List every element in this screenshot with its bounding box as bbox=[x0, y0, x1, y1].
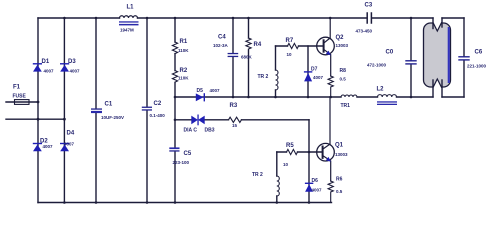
diode D6 bbox=[305, 183, 313, 184]
svg-text:0.1-400: 0.1-400 bbox=[150, 113, 166, 118]
lamp pin top left bbox=[432, 18, 434, 29]
svg-text:TR 2: TR 2 bbox=[258, 74, 269, 80]
wire Q1 base line y=152 bbox=[277, 151, 322, 153]
capacitor C3 bbox=[367, 13, 371, 23]
svg-text:DB3: DB3 bbox=[205, 128, 215, 134]
svg-text:R3: R3 bbox=[230, 103, 238, 109]
capacitor C6 bbox=[458, 56, 469, 57]
lamp pin bottom left bbox=[432, 80, 434, 97]
svg-text:472-1000: 472-1000 bbox=[367, 63, 387, 68]
svg-text:C1: C1 bbox=[105, 102, 113, 108]
svg-text:C3: C3 bbox=[365, 3, 373, 9]
wire AC line 1 with fuse bbox=[6, 101, 38, 103]
svg-text:L2: L2 bbox=[377, 87, 385, 93]
wire C4 column bbox=[232, 18, 234, 97]
svg-text:4007: 4007 bbox=[312, 188, 323, 193]
junction dots output node bbox=[232, 96, 235, 99]
wire TR2 bottom winding column bbox=[276, 152, 278, 203]
svg-text:D5: D5 bbox=[197, 88, 204, 94]
wire C0 column bbox=[410, 18, 412, 97]
svg-text:DIA C: DIA C bbox=[184, 128, 198, 134]
svg-text:D7: D7 bbox=[311, 67, 318, 73]
wire TR2 top winding column bbox=[275, 46, 277, 97]
svg-text:10: 10 bbox=[283, 162, 289, 167]
svg-text:R2: R2 bbox=[180, 68, 188, 74]
diode D5 bbox=[204, 93, 205, 101]
diode D1 bbox=[33, 63, 42, 64]
svg-text:473-450: 473-450 bbox=[356, 29, 373, 34]
wire AC line 2 bbox=[6, 118, 64, 120]
diode D7 bbox=[304, 71, 312, 72]
svg-text:223-100: 223-100 bbox=[173, 160, 190, 165]
svg-text:13003: 13003 bbox=[336, 43, 349, 48]
svg-text:Q2: Q2 bbox=[336, 35, 345, 41]
transformer TR2 top winding bbox=[276, 70, 279, 90]
svg-text:110K: 110K bbox=[178, 76, 189, 81]
transistor Q1 bbox=[317, 143, 335, 161]
emitter arrow Q2 bbox=[326, 51, 331, 56]
svg-text:4007: 4007 bbox=[44, 69, 55, 74]
svg-text:TR 2: TR 2 bbox=[252, 172, 263, 178]
wire top lamp-to-C6 segment bbox=[442, 17, 464, 19]
svg-text:15: 15 bbox=[232, 123, 238, 128]
svg-text:R7: R7 bbox=[286, 38, 294, 44]
resistor R5 bbox=[287, 149, 298, 154]
svg-text:4007: 4007 bbox=[70, 69, 81, 74]
svg-text:FUSE: FUSE bbox=[13, 94, 27, 100]
svg-text:D6: D6 bbox=[312, 178, 319, 184]
wire C1 column bbox=[95, 18, 97, 203]
wire top bus right segment bbox=[372, 17, 433, 19]
wire Q2 base line y=46 bbox=[276, 45, 323, 47]
resistor R8 bbox=[328, 76, 333, 97]
lamp tube bbox=[424, 23, 451, 87]
svg-text:221-1000: 221-1000 bbox=[467, 64, 487, 69]
wire R1 R2 C5 column bbox=[174, 18, 176, 203]
svg-text:C4: C4 bbox=[218, 35, 226, 41]
wire diac line y=119.8 bbox=[175, 119, 309, 121]
capacitor C1 bbox=[91, 108, 102, 109]
svg-text:R1: R1 bbox=[180, 39, 188, 45]
svg-text:C5: C5 bbox=[184, 151, 192, 157]
svg-text:10: 10 bbox=[287, 52, 293, 57]
svg-text:R5: R5 bbox=[286, 143, 294, 149]
svg-text:C6: C6 bbox=[475, 50, 483, 56]
svg-text:C2: C2 bbox=[154, 101, 162, 107]
resistor R3 bbox=[229, 117, 242, 122]
capacitor C0 bbox=[405, 60, 416, 61]
wire D6 R3-corner column bbox=[308, 120, 310, 203]
svg-text:102-3A: 102-3A bbox=[213, 43, 229, 48]
svg-text:L1: L1 bbox=[127, 5, 135, 11]
junction dots bottom bus bbox=[63, 201, 66, 204]
wire D7 column bbox=[307, 46, 309, 97]
transformer TR1 winding bbox=[341, 95, 357, 97]
svg-text:4007: 4007 bbox=[64, 142, 75, 147]
inductor L1 core bbox=[119, 21, 139, 22]
wire output node y=97 bbox=[175, 96, 433, 98]
wire R4 column bbox=[248, 18, 250, 97]
fuse F1 bbox=[15, 100, 30, 105]
junction dot AC crossing bbox=[37, 118, 40, 121]
wire left border / D1 D2 column bbox=[37, 18, 39, 203]
inductor L2 bbox=[378, 95, 397, 97]
resistor R7 bbox=[288, 43, 299, 48]
svg-text:0.5: 0.5 bbox=[336, 189, 343, 194]
capacitor C2 bbox=[142, 107, 152, 108]
diode D2 bbox=[33, 143, 42, 144]
capacitor C4 bbox=[228, 53, 239, 54]
resistor R6 bbox=[328, 181, 333, 203]
svg-text:10UF-250V: 10UF-250V bbox=[101, 115, 124, 120]
wire C6 column bbox=[463, 18, 465, 97]
svg-text:4007: 4007 bbox=[210, 88, 221, 93]
svg-text:R6: R6 bbox=[336, 177, 343, 183]
svg-text:R8: R8 bbox=[340, 68, 347, 74]
lamp pin top right bbox=[441, 18, 443, 27]
diode D3 bbox=[60, 63, 69, 64]
svg-text:680K: 680K bbox=[241, 55, 253, 60]
resistor R1 bbox=[172, 42, 177, 54]
wire lamp bottom right segment bbox=[442, 96, 464, 98]
diac DB3 bbox=[191, 116, 198, 125]
svg-text:C0: C0 bbox=[386, 50, 394, 56]
svg-text:4007: 4007 bbox=[43, 144, 54, 149]
capacitor C5 bbox=[169, 147, 179, 149]
inductor L2 core bbox=[377, 101, 397, 102]
junction dot diac line bbox=[174, 119, 177, 122]
wire top bus left segment bbox=[38, 17, 120, 19]
svg-text:0.5: 0.5 bbox=[340, 77, 347, 82]
svg-text:D4: D4 bbox=[67, 131, 75, 137]
inductor L1 bbox=[120, 16, 138, 18]
junction dot Q1 base bbox=[308, 151, 311, 154]
svg-text:D3: D3 bbox=[68, 59, 76, 65]
lamp pin bottom right bbox=[441, 80, 443, 97]
svg-text:110K: 110K bbox=[178, 48, 189, 53]
svg-text:R4: R4 bbox=[254, 42, 262, 48]
svg-text:D1: D1 bbox=[42, 59, 50, 65]
resistor R4 bbox=[246, 38, 251, 49]
transformer TR2 bottom winding bbox=[277, 176, 280, 196]
transistor Q2 bbox=[317, 37, 335, 55]
lamp bottom filament notch bbox=[432, 78, 442, 88]
wire top bus middle segment bbox=[138, 17, 367, 19]
svg-text:TR1: TR1 bbox=[341, 103, 351, 109]
lamp top filament notch bbox=[432, 22, 442, 32]
wire C2 column bbox=[146, 18, 148, 203]
svg-text:4007: 4007 bbox=[313, 75, 324, 80]
svg-text:F1: F1 bbox=[13, 85, 21, 91]
wire D3 D4 column bbox=[63, 18, 65, 203]
resistor R2 bbox=[172, 71, 177, 83]
svg-text:13003: 13003 bbox=[335, 152, 348, 157]
wire bottom bus bbox=[38, 202, 332, 204]
svg-text:1947M: 1947M bbox=[120, 28, 134, 33]
junction dots top bus bbox=[63, 17, 66, 20]
svg-text:Q1: Q1 bbox=[335, 143, 344, 149]
diode D4 bbox=[60, 143, 69, 144]
emitter arrow Q1 bbox=[326, 157, 331, 162]
